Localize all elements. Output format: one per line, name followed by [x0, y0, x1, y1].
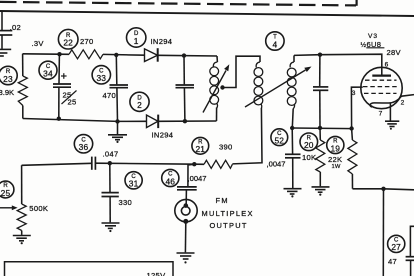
svg-text:25: 25: [1, 188, 11, 198]
svg-text:19: 19: [330, 143, 340, 153]
wire left block top rail: [23, 53, 69, 56]
wire R22 to D1: [103, 53, 145, 56]
svg-text:4: 4: [272, 39, 277, 49]
svg-text:OUTPUT: OUTPUT: [210, 221, 248, 230]
tube label 1/2 6U8: [361, 40, 385, 49]
ref circle C36: [74, 135, 92, 153]
svg-text:FM: FM: [216, 196, 229, 205]
svg-text:V3: V3: [368, 33, 378, 40]
ground (cathode pin 7): [385, 121, 399, 130]
arrow L tuning: [203, 64, 229, 112]
svg-text:2: 2: [137, 100, 142, 110]
node junction dot cap bottom: [183, 119, 187, 123]
capacitor C34 electrolytic: [53, 54, 71, 119]
wire D1 to coil corner: [158, 54, 217, 57]
ground (R25): [13, 236, 31, 245]
ref circle D2: [130, 92, 149, 111]
svg-text:22: 22: [63, 38, 73, 48]
tube grid (dashed): [363, 80, 398, 93]
svg-text:21: 21: [195, 144, 205, 154]
capacitor C52: [285, 128, 301, 188]
ground (bottom rail): [108, 121, 127, 143]
ref circle R19: [327, 136, 344, 153]
ground (C31): [102, 223, 120, 232]
inductor T4 secondary: [287, 55, 296, 128]
svg-text:46: 46: [165, 176, 175, 186]
ref circle R25: [0, 181, 14, 198]
ref circle R23: [0, 66, 17, 84]
wire B+ top rail: [0, 11, 414, 16]
svg-text:7: 7: [379, 111, 383, 118]
capacitor C33: [110, 55, 129, 122]
capacitor C27: [406, 226, 414, 276]
capacitor C31: [102, 163, 119, 222]
svg-text:470: 470: [103, 91, 117, 100]
potentiometer R25: [17, 165, 26, 235]
dashed enclosure border top: [0, 0, 357, 6]
svg-text:2: 2: [401, 100, 405, 107]
svg-text:125V: 125V: [147, 271, 167, 276]
node junction dot C31: [108, 161, 112, 165]
svg-text:34: 34: [43, 69, 53, 79]
capacitor C36 (series): [92, 157, 96, 170]
ground (C52): [284, 189, 302, 198]
svg-text:31: 31: [129, 179, 139, 189]
inductor T4 primary: [254, 62, 263, 108]
diode D1: [145, 48, 158, 62]
svg-text:22K: 22K: [328, 155, 342, 164]
wire grid pin 3: [351, 87, 362, 128]
ref circle C27: [388, 235, 405, 252]
svg-text:.3V: .3V: [32, 39, 45, 48]
svg-text:1W: 1W: [332, 164, 341, 170]
ground (R20): [312, 187, 330, 196]
tube plate: [372, 74, 391, 76]
svg-text:500K: 500K: [29, 204, 48, 213]
value label 22K 1W: [328, 155, 342, 170]
ref circle C52: [271, 129, 288, 146]
node junction dot R20: [318, 126, 322, 130]
capacitor C46: [177, 164, 197, 203]
node junction dot bottom right: [381, 187, 385, 191]
wire pin 7 cathode lead: [389, 103, 391, 120]
wire R19 bottom to right edge: [353, 189, 414, 190]
svg-text:36: 36: [79, 142, 89, 152]
node junction dot C33 bottom: [115, 119, 119, 123]
ref circle C34: [39, 61, 57, 79]
ref circle R22: [58, 29, 78, 49]
svg-text:6: 6: [385, 62, 389, 69]
svg-text:MULTIPLEX: MULTIPLEX: [202, 209, 254, 218]
resistor R20: [316, 128, 325, 186]
svg-text:47: 47: [388, 257, 397, 266]
ref circle C46: [162, 169, 179, 186]
ref circle R20: [300, 133, 318, 151]
svg-text:IN294: IN294: [151, 37, 173, 46]
label FM MULTIPLEX OUTPUT: [202, 196, 254, 230]
svg-text:20: 20: [304, 140, 314, 150]
wire cathode rail: [292, 127, 353, 130]
ref circle C33: [92, 66, 110, 84]
svg-text:25: 25: [68, 98, 77, 107]
node junction dot plate feed: [318, 53, 322, 57]
wire jack to ground: [184, 221, 186, 252]
ground (jack): [177, 253, 195, 264]
svg-text:28V: 28V: [387, 48, 402, 57]
node tap dot on L: [220, 85, 224, 89]
wire pin 2 output: [402, 95, 414, 97]
svg-text:.047: .047: [103, 150, 119, 159]
arrow T4 tuning: [245, 67, 312, 108]
node junction dot mid cap top: [182, 53, 186, 57]
resistor R22 zigzag: [69, 50, 103, 59]
wire down right column: [382, 189, 384, 276]
node junction dot C52: [290, 126, 294, 130]
resistor R19: [348, 129, 357, 189]
diode D2: [147, 115, 159, 129]
ref circle C31: [125, 172, 142, 189]
node junction dot R19/grid: [349, 126, 353, 130]
svg-text:23: 23: [3, 74, 13, 84]
tube V3 envelope: [361, 67, 402, 108]
svg-text:10K: 10K: [302, 153, 316, 162]
svg-text:1: 1: [134, 36, 139, 46]
svg-text:,0047: ,0047: [267, 160, 286, 169]
value label 25/25: [62, 91, 77, 107]
svg-text:33: 33: [96, 73, 106, 83]
capacitor plate bypass: [313, 55, 328, 128]
ref circle T4: [266, 32, 284, 50]
svg-text:52: 52: [274, 136, 284, 146]
node junction dot C33 top: [114, 53, 118, 57]
ref circle R21: [192, 137, 209, 154]
ref circle D1: [127, 28, 146, 47]
wire audio rail lower left: [22, 163, 196, 165]
tube cathode: [370, 96, 401, 107]
resistor R21 zigzag: [196, 160, 232, 168]
capacitor C (.02): [0, 11, 12, 49]
node junction dot C34 top: [57, 52, 61, 56]
svg-text:3.9K: 3.9K: [0, 88, 14, 97]
wire tap step to T4 primary: [223, 56, 261, 87]
svg-text:270: 270: [80, 37, 94, 46]
capacitor (detector, unlabeled): [176, 56, 195, 122]
wire T4 secondary top to plate: [294, 54, 382, 75]
svg-text:330: 330: [119, 198, 133, 207]
svg-text:27: 27: [391, 242, 401, 252]
jack J FM multiplex output: [175, 199, 197, 223]
node junction dot C34 bottom: [57, 117, 61, 121]
ground (.02 cap): [0, 49, 11, 56]
svg-text:3: 3: [352, 90, 356, 97]
resistor R23 (vertical): [18, 54, 27, 119]
inductor L tuned coil: [210, 56, 219, 121]
box 125V power section: [5, 262, 174, 276]
node junction dot C46/R21: [192, 162, 196, 166]
svg-text:,0047: ,0047: [188, 174, 207, 183]
svg-text:390: 390: [219, 142, 233, 151]
wire left block bottom rail: [23, 119, 217, 122]
svg-text:IN294: IN294: [152, 130, 174, 139]
svg-text:.02: .02: [10, 23, 21, 32]
wire T4 primary bottom to R21: [232, 108, 262, 164]
arrow R25 wiper: [0, 205, 18, 210]
